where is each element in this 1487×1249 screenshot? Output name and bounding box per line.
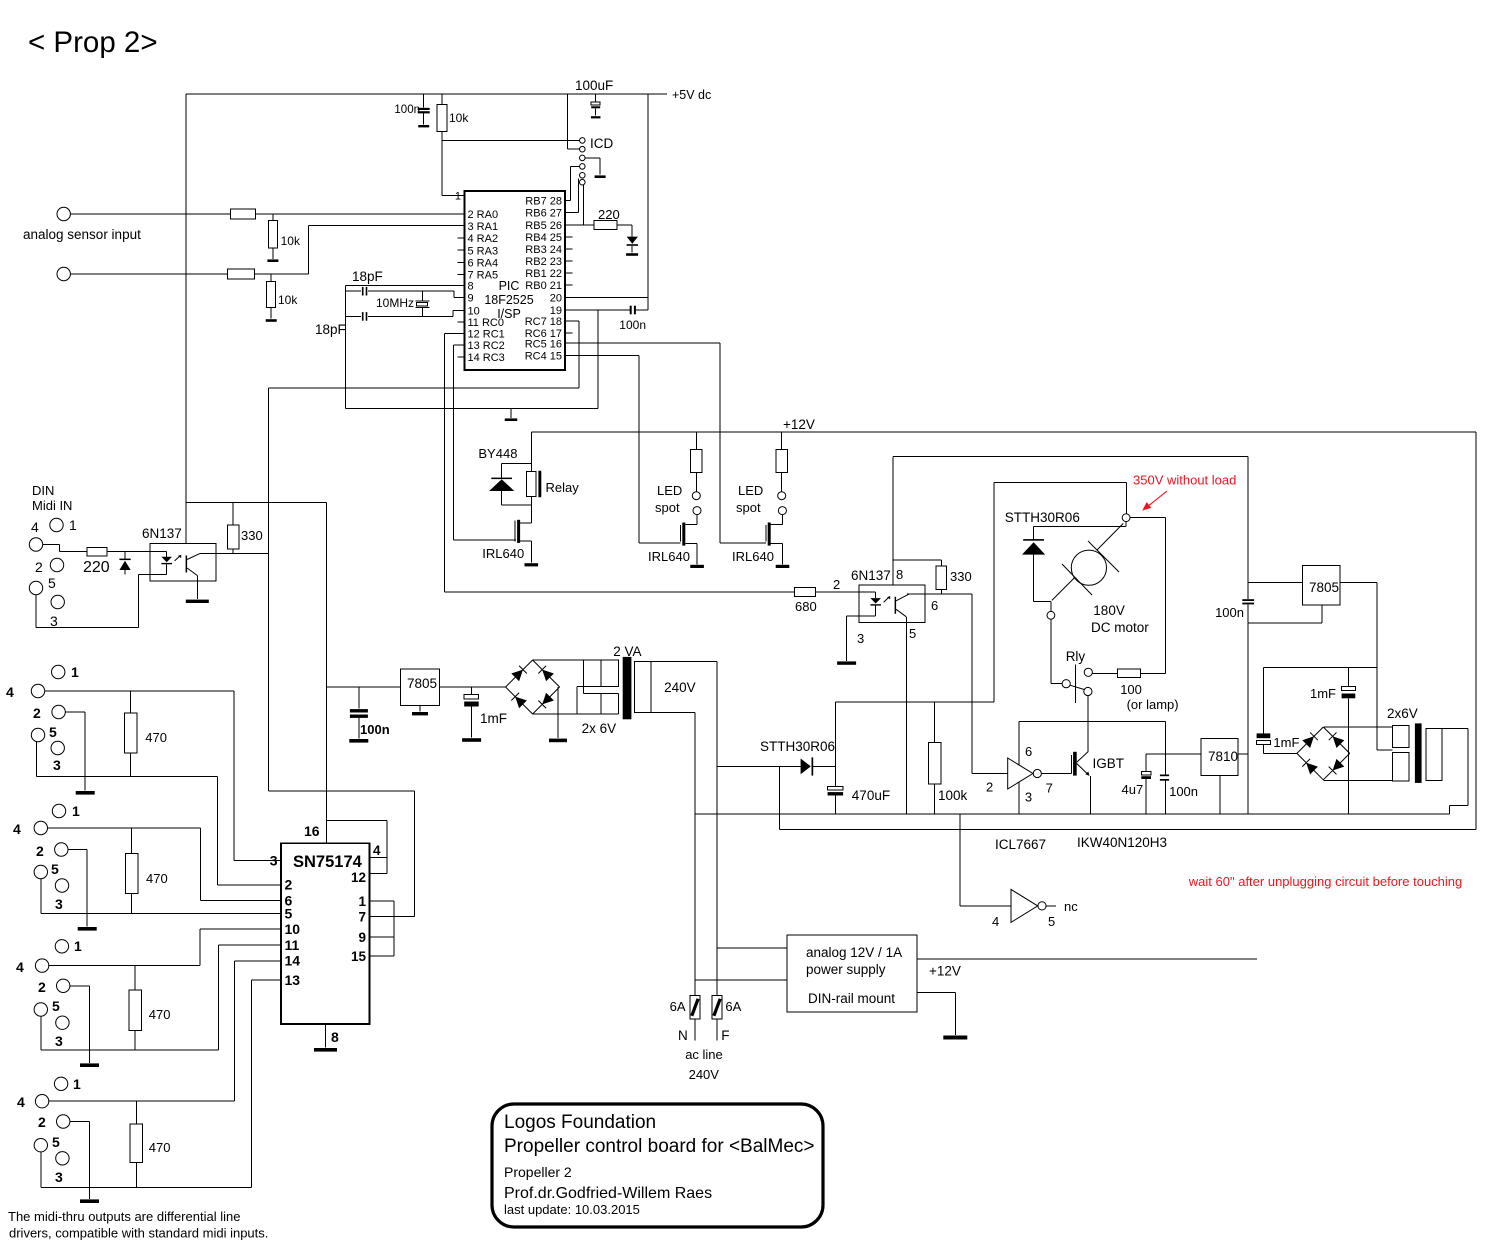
svg-text:4: 4 [6, 684, 14, 700]
svg-text:16: 16 [304, 823, 320, 839]
svg-text:13 RC2: 13 RC2 [468, 340, 505, 352]
svg-text:470uF: 470uF [852, 788, 890, 803]
svg-text:180V: 180V [1093, 603, 1125, 618]
svg-text:330: 330 [241, 528, 263, 543]
svg-text:analog sensor input: analog sensor input [23, 227, 141, 242]
svg-text:2 VA: 2 VA [613, 644, 641, 659]
svg-text:10: 10 [468, 306, 480, 318]
svg-text:8: 8 [896, 567, 903, 582]
svg-text:IRL640: IRL640 [648, 549, 690, 564]
svg-text:100n: 100n [619, 318, 646, 332]
svg-text:1: 1 [358, 894, 366, 909]
svg-text:4: 4 [31, 519, 39, 535]
svg-text:RC5 16: RC5 16 [525, 338, 562, 350]
svg-text:nc: nc [1064, 899, 1078, 914]
svg-text:18pF: 18pF [352, 269, 383, 284]
svg-text:3: 3 [55, 896, 63, 912]
svg-text:LED: LED [738, 483, 763, 498]
svg-text:2: 2 [35, 559, 43, 575]
svg-text:5: 5 [48, 575, 56, 591]
svg-text:STTH30R06: STTH30R06 [1005, 510, 1080, 525]
svg-text:Midi IN: Midi IN [32, 498, 72, 513]
svg-text:1: 1 [455, 191, 461, 203]
svg-text:6A: 6A [670, 999, 686, 1014]
svg-text:6 RA4: 6 RA4 [468, 258, 499, 270]
svg-text:1: 1 [69, 517, 77, 533]
svg-text:9: 9 [468, 293, 474, 305]
svg-text:Propeller control board for <B: Propeller control board for <BalMec> [504, 1136, 815, 1157]
svg-text:ICD: ICD [590, 136, 614, 151]
svg-text:8: 8 [468, 281, 474, 293]
svg-text:12: 12 [351, 870, 366, 885]
svg-text:18F2525: 18F2525 [484, 293, 533, 307]
svg-text:13: 13 [285, 972, 301, 988]
svg-text:6: 6 [1025, 744, 1032, 759]
svg-text:2x6V: 2x6V [1387, 706, 1418, 721]
svg-text:5: 5 [49, 724, 57, 740]
svg-text:2 RA0: 2 RA0 [468, 209, 499, 221]
svg-text:+12V: +12V [783, 417, 815, 432]
svg-text:3: 3 [1025, 790, 1032, 805]
svg-text:1mF: 1mF [1273, 735, 1299, 750]
svg-text:100n: 100n [1215, 605, 1244, 620]
svg-text:10k: 10k [278, 293, 298, 307]
svg-text:5: 5 [285, 906, 293, 922]
svg-text:BY448: BY448 [478, 446, 517, 461]
svg-text:100uF: 100uF [575, 78, 613, 93]
svg-text:100k: 100k [938, 788, 968, 803]
svg-text:< Prop 2>: < Prop 2> [28, 26, 158, 59]
svg-text:SN75174: SN75174 [293, 853, 363, 871]
svg-text:7805: 7805 [407, 676, 437, 691]
svg-text:4 RA2: 4 RA2 [468, 233, 499, 245]
svg-text:4: 4 [16, 959, 24, 975]
svg-text:RC4 15: RC4 15 [525, 351, 562, 363]
svg-text:Logos Foundation: Logos Foundation [504, 1112, 656, 1133]
svg-text:6: 6 [931, 598, 938, 613]
svg-text:3: 3 [53, 757, 61, 773]
svg-text:20: 20 [550, 293, 562, 305]
svg-text:RB4 25: RB4 25 [525, 232, 562, 244]
svg-text:1: 1 [74, 938, 82, 954]
svg-text:220: 220 [83, 559, 110, 576]
svg-text:RC7 18: RC7 18 [525, 316, 562, 328]
svg-text:LED: LED [657, 483, 682, 498]
svg-text:11: 11 [285, 937, 300, 953]
svg-text:3: 3 [55, 1169, 63, 1185]
svg-text:350V without load: 350V without load [1133, 473, 1236, 488]
svg-text:5 RA3: 5 RA3 [468, 245, 499, 257]
svg-text:6N137: 6N137 [142, 526, 182, 541]
svg-text:100n: 100n [360, 722, 390, 737]
svg-text:6N137: 6N137 [851, 568, 891, 583]
svg-text:wait 60" after unplugging circ: wait 60" after unplugging circuit before… [1188, 874, 1462, 889]
svg-text:(or lamp): (or lamp) [1127, 697, 1179, 712]
svg-text:Prof.dr.Godfried-Willem Raes: Prof.dr.Godfried-Willem Raes [504, 1185, 712, 1202]
svg-text:2: 2 [36, 843, 44, 859]
svg-text:RB6 27: RB6 27 [525, 208, 562, 220]
svg-text:RB1 22: RB1 22 [525, 268, 562, 280]
svg-text:3: 3 [50, 613, 58, 629]
svg-text:100n: 100n [1169, 784, 1198, 799]
svg-text:RB2 23: RB2 23 [525, 256, 562, 268]
svg-text:ICL7667: ICL7667 [995, 837, 1046, 852]
svg-text:18pF: 18pF [315, 322, 346, 337]
svg-text:4: 4 [17, 1094, 25, 1110]
svg-text:7810: 7810 [1208, 749, 1238, 764]
svg-text:Rly: Rly [1066, 649, 1086, 664]
svg-text:3: 3 [857, 631, 864, 646]
svg-text:470: 470 [149, 1007, 171, 1022]
svg-text:drivers, compatible with stand: drivers, compatible with standard midi i… [9, 1226, 268, 1241]
svg-text:330: 330 [950, 569, 972, 584]
svg-text:1mF: 1mF [480, 711, 507, 726]
svg-text:4: 4 [992, 914, 999, 929]
svg-text:IRL640: IRL640 [482, 546, 524, 561]
svg-text:100n: 100n [394, 104, 420, 116]
svg-text:10: 10 [285, 921, 301, 937]
svg-text:PIC: PIC [499, 279, 520, 293]
svg-text:1: 1 [71, 664, 79, 680]
svg-text:470: 470 [146, 871, 168, 886]
svg-text:12 RC1: 12 RC1 [468, 329, 505, 341]
svg-text:9: 9 [358, 930, 366, 945]
svg-text:5: 5 [1048, 914, 1055, 929]
svg-text:Propeller 2: Propeller 2 [504, 1164, 572, 1180]
svg-text:spot: spot [736, 500, 761, 515]
svg-text:240V: 240V [689, 1067, 720, 1082]
svg-text:IRL640: IRL640 [732, 549, 774, 564]
svg-text:14: 14 [285, 953, 301, 969]
svg-text:2: 2 [38, 979, 46, 995]
svg-text:680: 680 [795, 599, 817, 614]
svg-text:2: 2 [33, 705, 41, 721]
svg-text:6A: 6A [725, 999, 741, 1014]
svg-text:470: 470 [145, 730, 167, 745]
svg-text:1: 1 [72, 803, 80, 819]
svg-text:IGBT: IGBT [1093, 756, 1125, 771]
svg-text:8: 8 [331, 1029, 339, 1045]
svg-text:DIN: DIN [32, 483, 54, 498]
svg-text:The midi-thru outputs are diff: The midi-thru outputs are differential l… [8, 1209, 240, 1224]
svg-text:spot: spot [655, 500, 680, 515]
svg-text:ac line: ac line [685, 1047, 723, 1062]
svg-text:2: 2 [285, 877, 293, 893]
svg-text:4: 4 [373, 843, 381, 858]
svg-text:4: 4 [13, 821, 21, 837]
svg-text:RB3 24: RB3 24 [525, 244, 562, 256]
svg-text:DC motor: DC motor [1091, 620, 1149, 635]
svg-text:7805: 7805 [1309, 580, 1339, 595]
svg-text:STTH30R06: STTH30R06 [760, 739, 835, 754]
svg-text:RB5 26: RB5 26 [525, 220, 562, 232]
svg-text:2: 2 [38, 1114, 46, 1130]
svg-text:1mF: 1mF [1310, 686, 1336, 701]
svg-text:5: 5 [52, 1134, 60, 1150]
svg-text:240V: 240V [664, 680, 696, 695]
svg-text:IKW40N120H3: IKW40N120H3 [1077, 835, 1167, 850]
svg-text:100: 100 [1120, 682, 1142, 697]
svg-text:power supply: power supply [806, 962, 886, 977]
svg-text:15: 15 [351, 949, 367, 964]
svg-text:7: 7 [358, 909, 366, 924]
svg-text:11 RC0: 11 RC0 [468, 317, 504, 329]
svg-text:5: 5 [51, 861, 59, 877]
svg-text:5: 5 [52, 998, 60, 1014]
svg-text:DIN-rail mount: DIN-rail mount [808, 991, 895, 1006]
svg-text:Relay: Relay [546, 480, 580, 495]
svg-text:2x 6V: 2x 6V [582, 721, 617, 736]
svg-text:RB7 28: RB7 28 [525, 196, 562, 208]
svg-text:+12V: +12V [929, 964, 961, 979]
svg-text:10k: 10k [281, 234, 301, 248]
svg-text:14 RC3: 14 RC3 [468, 352, 505, 364]
svg-text:N: N [678, 1028, 688, 1043]
svg-text:7: 7 [1046, 781, 1053, 796]
svg-text:3: 3 [55, 1033, 63, 1049]
svg-text:last update: 10.03.2015: last update: 10.03.2015 [504, 1202, 640, 1217]
svg-text:analog 12V / 1A: analog 12V / 1A [806, 945, 902, 960]
svg-text:470: 470 [149, 1140, 171, 1155]
svg-text:220: 220 [598, 207, 620, 222]
svg-text:2: 2 [833, 577, 840, 592]
svg-text:3: 3 [270, 853, 278, 869]
svg-text:1: 1 [73, 1076, 81, 1092]
svg-text:+5V dc: +5V dc [672, 88, 711, 102]
svg-text:2: 2 [986, 780, 993, 795]
svg-text:3 RA1: 3 RA1 [468, 221, 499, 233]
svg-text:F: F [721, 1028, 729, 1043]
svg-text:5: 5 [909, 626, 916, 641]
svg-text:4u7: 4u7 [1122, 782, 1144, 797]
svg-text:RB0 21: RB0 21 [525, 280, 562, 292]
svg-text:10k: 10k [449, 111, 469, 125]
svg-text:10MHz: 10MHz [376, 296, 414, 310]
